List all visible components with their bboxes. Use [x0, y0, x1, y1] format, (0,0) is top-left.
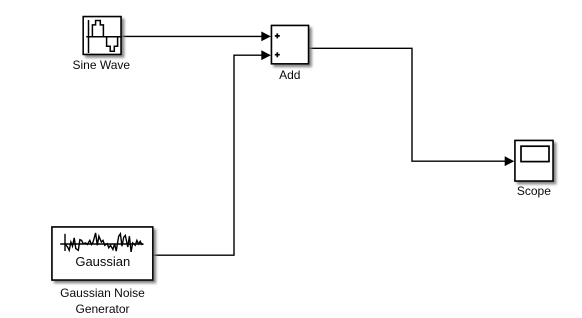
svg-text:Scope: Scope	[517, 184, 551, 198]
wire W2: Gaussian output to Add input 2	[153, 55, 263, 255]
wire W3: Add output to Scope input	[309, 48, 506, 161]
label Sine Wave	[73, 58, 131, 72]
label Gaussian Noise Generator line 2	[75, 302, 129, 316]
label Scope	[517, 184, 551, 198]
Sine Wave icon: x-axis	[86, 36, 121, 38]
block Gaussian Noise Generator	[52, 227, 153, 280]
svg-text:Gaussian: Gaussian	[75, 254, 130, 269]
arrowhead into Add input 1	[261, 32, 271, 42]
Add plus sign 1	[275, 33, 280, 38]
Gaussian block inner text	[75, 254, 130, 269]
Gaussian icon: axis tick	[64, 234, 66, 251]
Scope screen rectangle	[521, 146, 549, 161]
block Add	[272, 26, 309, 64]
Gaussian icon: noise waveform	[65, 233, 143, 252]
Sine Wave icon: staircase sine	[92, 21, 117, 52]
arrowhead into Add input 2	[261, 50, 271, 60]
svg-text:Gaussian Noise: Gaussian Noise	[60, 286, 145, 300]
wire W1: Sine Wave output to Add input 1	[121, 35, 263, 37]
svg-text:Sine Wave: Sine Wave	[73, 58, 131, 72]
label Gaussian Noise Generator line 1	[60, 286, 145, 300]
Add plus sign 2	[275, 52, 280, 57]
Sine Wave icon: y-axis	[88, 20, 90, 53]
label Add	[279, 68, 300, 82]
block Sine Wave	[83, 17, 121, 55]
svg-text:Add: Add	[279, 68, 300, 82]
arrowhead into Scope input	[505, 156, 515, 166]
svg-text:Generator: Generator	[75, 302, 129, 316]
Gaussian icon: x-axis	[60, 243, 143, 245]
block Scope	[515, 141, 553, 182]
